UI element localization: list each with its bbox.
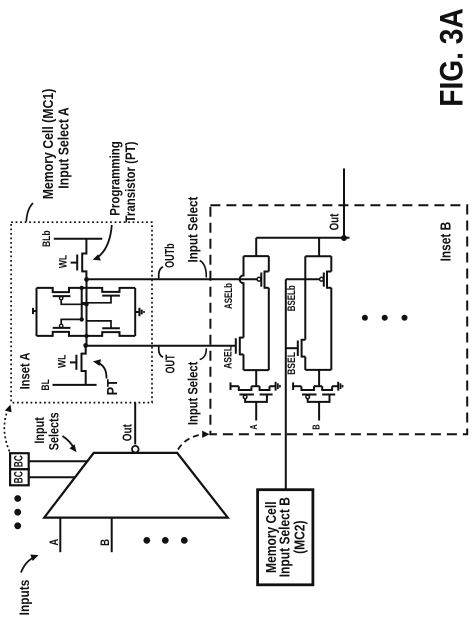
B leg right rail upper — [330, 256, 332, 271]
programming transistor PT (BL side) — [40, 345, 97, 390]
VDD tick left — [33, 310, 37, 312]
svg-text:Out: Out — [121, 424, 134, 441]
input A wire (mux) — [59, 518, 61, 553]
drain lead from OUT node — [82, 345, 86, 353]
inverter to GND lead — [332, 385, 338, 387]
inset B ellipsis dots — [362, 315, 368, 321]
input A wire — [255, 402, 257, 421]
inverter NMOS channel — [321, 386, 323, 390]
node Out dot — [341, 235, 347, 241]
svg-text:A: A — [248, 424, 259, 430]
left-top gate lead to node — [61, 300, 86, 305]
mux input ellipsis dots — [143, 537, 150, 544]
gate bar — [76, 255, 78, 271]
gate tie wire — [245, 395, 267, 402]
svg-text:Input Select B: Input Select B — [276, 497, 292, 578]
B input inverter: VDD tick — [292, 382, 294, 390]
OUTb leader arc — [159, 267, 163, 278]
drain lead — [82, 239, 86, 254]
svg-text:OUTb: OUTb — [164, 243, 178, 268]
inset A dotted box — [11, 222, 152, 402]
ASEL gate bar — [235, 338, 237, 353]
right-top gate lead to node — [82, 296, 111, 303]
top edge right half with NMOS notch — [88, 288, 135, 292]
GND bars — [275, 382, 277, 391]
bottom edge right half with notch — [88, 332, 135, 336]
svg-text:BC: BC — [13, 455, 26, 468]
svg-text:Selects: Selects — [46, 412, 61, 450]
svg-text:PT: PT — [103, 379, 120, 396]
inverter PMOS channel — [238, 386, 240, 390]
A input inverter: VDD tick — [230, 382, 232, 390]
A leg right rail upper — [268, 256, 270, 271]
access transistor BLb side — [41, 230, 102, 279]
svg-text:Input Select: Input Select — [185, 361, 200, 425]
memory cell MC1: left inverter — [33, 288, 88, 336]
gate bar — [75, 355, 77, 370]
channel bar — [81, 253, 83, 273]
wire OUTb — [87, 278, 258, 280]
BSELb gate bar — [323, 273, 325, 287]
BSELb gate bubble — [320, 277, 324, 281]
A leg loop to inverter — [255, 370, 257, 386]
B leg right rail lower — [330, 288, 332, 370]
mux Out wire up — [134, 403, 136, 445]
svg-text:Memory Cell (MC1): Memory Cell (MC1) — [40, 89, 56, 200]
B leg output wire up — [318, 238, 320, 256]
ASELb transistor inline (upper PMOS) — [265, 271, 269, 273]
source lead — [82, 371, 86, 385]
wire Out upward — [343, 168, 345, 237]
svg-text:Transistor (PT): Transistor (PT) — [122, 142, 138, 223]
svg-text:FIG. 3A: FIG. 3A — [435, 8, 470, 107]
inverter to GND lead — [270, 385, 276, 387]
upper Input Select leader arc — [200, 261, 207, 278]
svg-text:BC: BC — [13, 471, 26, 484]
input B wire (mux) — [111, 518, 113, 553]
svg-text:BSEL: BSEL — [286, 352, 298, 375]
gate lead WL — [71, 262, 78, 264]
MC2 box — [258, 490, 313, 585]
A leg left rail upper (with hop over OUTb) — [240, 256, 244, 338]
right-bottom gate bar — [102, 327, 120, 329]
svg-text:WL: WL — [57, 355, 69, 368]
left-top gate bubble — [60, 296, 63, 299]
source lead — [82, 271, 86, 279]
BSEL gate bar — [297, 341, 299, 356]
junction dot OUT node — [83, 343, 88, 348]
BSELb transistor inline (upper PMOS) — [327, 271, 331, 273]
inverter mid SD — [251, 385, 259, 387]
right-top gate bar — [102, 295, 120, 297]
svg-text:BL: BL — [40, 379, 52, 390]
BC ellipsis dots — [14, 495, 21, 502]
A leg output wire up — [255, 238, 257, 256]
left-top gate bar — [53, 295, 71, 297]
B leg left rail lower — [304, 357, 306, 370]
junction dot OUTb node — [84, 277, 89, 282]
svg-text:Out: Out — [328, 213, 342, 230]
svg-text:B: B — [99, 539, 112, 546]
PT arrow — [98, 363, 107, 379]
BL wire — [53, 384, 97, 386]
gate lead WL — [70, 361, 77, 363]
left-bottom gate bar — [53, 327, 71, 329]
svg-text:(MC2): (MC2) — [291, 520, 307, 553]
B leg loop bottom edge — [305, 369, 331, 371]
left-bottom gate lead to node — [61, 319, 81, 324]
A leg loop bottom edge — [244, 369, 269, 371]
dashed arrow mux to inset B — [178, 434, 203, 449]
inverter gate bars — [302, 394, 317, 396]
BSEL transistor inline (lower NMOS) — [302, 339, 306, 341]
gate tie wire — [308, 395, 330, 402]
svg-text:A: A — [48, 539, 61, 546]
lower Input Select leader arc — [200, 348, 207, 359]
BLb wire — [54, 238, 103, 240]
memory cell MC1: right inverter — [82, 288, 144, 336]
inverter mid SD — [314, 385, 322, 387]
B leg loop to inverter — [318, 370, 320, 386]
node dots — [80, 286, 84, 290]
inverter gate bubble — [306, 395, 310, 399]
wire OUT — [86, 345, 236, 347]
ASELb gate bubble — [257, 277, 261, 281]
bottom edge left half with NMOS notch — [37, 332, 89, 336]
cell node line L — [81, 288, 83, 320]
svg-text:B: B — [311, 424, 322, 429]
inverter gate bars — [239, 394, 254, 396]
A leg loop top edge — [244, 255, 269, 257]
svg-text:Input: Input — [32, 417, 47, 443]
inverter gate bubble — [243, 395, 247, 399]
dotted arrow BC to inset A — [4, 409, 9, 452]
programming transistor arrow — [98, 225, 112, 258]
B leg left rail upper — [304, 256, 306, 340]
ASEL transistor inline (lower NMOS) — [240, 337, 244, 339]
ground symbol right — [135, 311, 139, 313]
svg-text:OUT: OUT — [164, 354, 178, 373]
svg-text:BSELb: BSELb — [286, 285, 299, 311]
inverter NMOS channel — [259, 386, 261, 390]
inverter PMOS channel — [300, 386, 302, 390]
wire legs to Out node — [256, 237, 349, 239]
OUT leader arc — [159, 347, 163, 358]
svg-text:BLb: BLb — [41, 230, 53, 247]
svg-text:Input Select: Input Select — [184, 196, 200, 262]
inset B dashed box — [210, 205, 467, 434]
BC wire 1 — [29, 460, 88, 462]
mux Out terminal circle — [132, 446, 139, 453]
input selects arrow — [63, 436, 74, 448]
wire MC2 to BSELb — [285, 279, 287, 490]
svg-text:Inset B: Inset B — [437, 222, 453, 262]
svg-text:Inputs: Inputs — [16, 580, 32, 616]
BC box 2 — [10, 469, 29, 485]
inputs arrow — [21, 558, 34, 573]
svg-text:Input Select A: Input Select A — [55, 107, 71, 189]
left rail — [36, 288, 38, 336]
MC1 leader line — [26, 203, 33, 222]
BSELb gate lead — [286, 278, 320, 280]
svg-text:Inset A: Inset A — [17, 353, 32, 390]
channel bar — [81, 353, 83, 372]
svg-text:WL: WL — [57, 255, 69, 268]
A leg right rail lower — [268, 288, 270, 370]
BC box 1 — [10, 453, 29, 469]
ASELb gate bar — [260, 273, 262, 287]
top edge left half with PMOS notch — [37, 288, 89, 292]
BSEL gate lead — [286, 347, 298, 349]
svg-text:ASEL: ASEL — [223, 346, 235, 369]
BC wire 2 — [29, 476, 75, 478]
cell node line R — [86, 279, 88, 345]
A leg left rail lower — [243, 354, 245, 370]
svg-text:Programming: Programming — [106, 141, 122, 216]
svg-text:ASELb: ASELb — [223, 283, 236, 309]
right rail — [134, 288, 136, 336]
input B wire — [318, 402, 320, 421]
right-bottom gate lead to node — [87, 321, 112, 328]
GND bars — [337, 382, 339, 391]
left-bottom gate bubble — [60, 324, 63, 327]
B leg loop top edge — [305, 255, 331, 257]
